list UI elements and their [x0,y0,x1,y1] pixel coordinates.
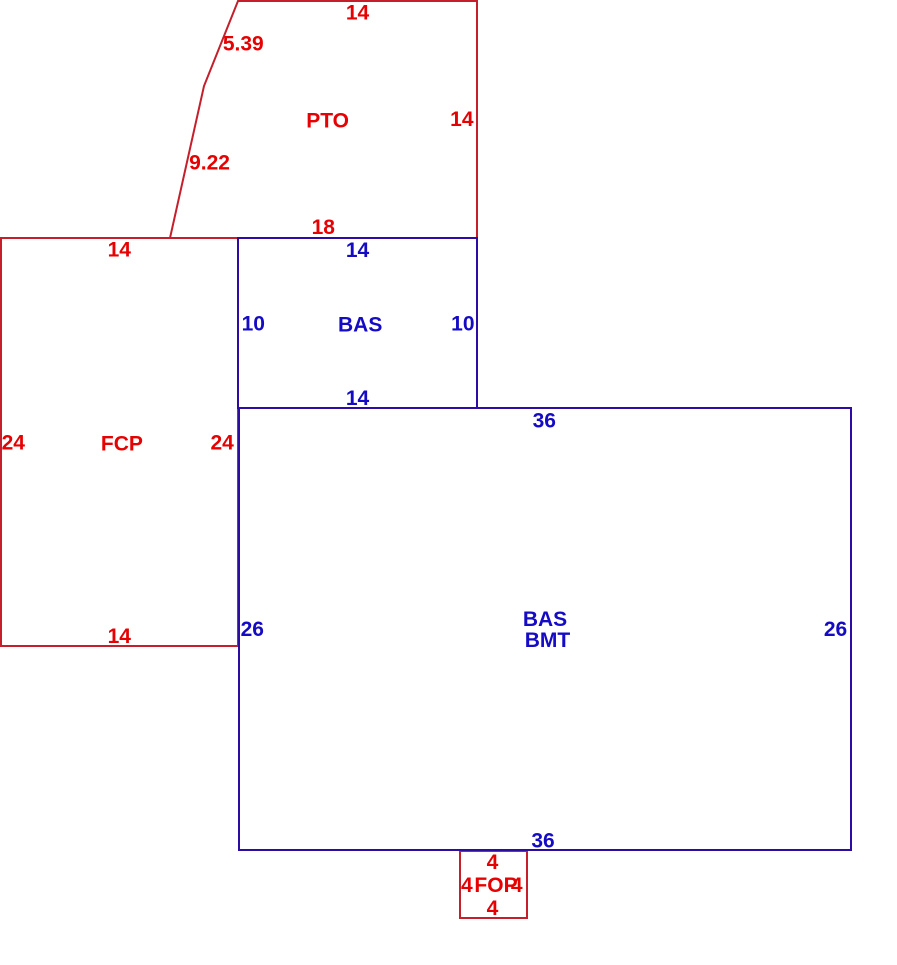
svg-text:14: 14 [108,239,132,262]
svg-text:PTO: PTO [306,110,349,133]
svg-text:24: 24 [2,431,26,454]
svg-text:4: 4 [487,851,499,874]
svg-text:10: 10 [451,312,474,335]
FOP porch rectangle [460,851,527,918]
svg-text:14: 14 [346,1,370,24]
svg-text:14: 14 [108,625,132,648]
PTO patio polygon [170,1,477,238]
svg-text:BMT: BMT [525,629,571,652]
svg-text:4: 4 [487,897,499,920]
svg-text:BAS: BAS [523,608,567,631]
svg-text:BAS: BAS [338,313,382,336]
svg-text:10: 10 [242,312,265,335]
svg-text:36: 36 [533,410,556,433]
BAS first-floor rectangle [238,238,477,408]
svg-text:14: 14 [346,239,370,262]
svg-text:24: 24 [210,431,234,454]
svg-text:9.22: 9.22 [189,152,230,175]
svg-text:14: 14 [346,387,370,410]
svg-text:4: 4 [461,874,473,897]
svg-text:14: 14 [450,108,474,131]
svg-text:4: 4 [511,874,523,897]
svg-text:26: 26 [824,618,847,641]
svg-text:26: 26 [241,618,264,641]
svg-text:FCP: FCP [101,432,143,455]
FCP carport rectangle [1,238,238,646]
svg-text:5.39: 5.39 [223,33,264,56]
svg-text:18: 18 [312,216,336,239]
BAS BMT basement rectangle [239,408,851,850]
svg-text:36: 36 [531,830,554,853]
